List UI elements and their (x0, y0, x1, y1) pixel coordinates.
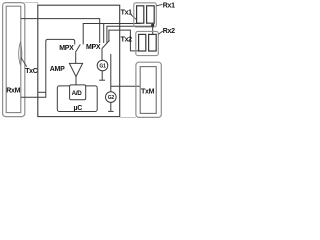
wire TxM net vertical (110, 54, 112, 92)
svg-text:TxC: TxC (25, 68, 38, 75)
leader line Rx1 (156, 4, 162, 5)
wire to TxM electrode (111, 85, 140, 87)
box microcontroller uC (57, 86, 97, 112)
op-amp AMP triangle (69, 63, 82, 76)
chip controller box U1 (38, 5, 120, 116)
wire MPX2 to G1 (101, 49, 103, 61)
electrode TxM inner plate (140, 67, 156, 114)
electrode RxM inner plate (6, 6, 21, 112)
wire Tx2 net (109, 30, 140, 51)
wire faint bottom segment (120, 117, 136, 119)
svg-text:µC: µC (74, 105, 83, 112)
panel group1 container (134, 3, 157, 27)
sensing element TxC lens (19, 43, 22, 65)
wire G1 bottom stem (101, 71, 103, 80)
box MPX1 multiplexer (46, 39, 75, 92)
svg-text:Rx1: Rx1 (163, 3, 175, 10)
wire AMP to A/D (75, 77, 77, 85)
wire MPX2 contact2 stub (103, 24, 105, 44)
svg-text:A/D: A/D (72, 90, 83, 97)
svg-text:Tx1: Tx1 (121, 10, 133, 17)
electrode Tx2 plate (139, 34, 146, 51)
svg-text:G1: G1 (99, 63, 106, 69)
wire RxM bottom to guard box (21, 92, 46, 97)
svg-text:Rx2: Rx2 (163, 28, 175, 35)
generator G1 circle (97, 60, 108, 71)
panel group2 container (136, 31, 159, 55)
leader line TxC (21, 58, 27, 67)
svg-text:G2: G2 (108, 95, 115, 101)
wire Rx common net (107, 26, 153, 43)
wire chip edge tie (38, 91, 46, 93)
leader line Tx1 (130, 14, 137, 20)
electrode Rx1 plate (147, 6, 155, 23)
junction dot Rx (151, 24, 154, 27)
panel TxM outer shield box (136, 62, 161, 117)
electrode Rx2 plate (149, 34, 157, 51)
wire RxM to MPX2 contact1 (21, 19, 100, 43)
switch MPX1 blade (76, 44, 81, 52)
terminal G1 bar (99, 79, 105, 81)
wire MPX1 to AMP (75, 52, 77, 63)
svg-text:MPX: MPX (86, 44, 101, 51)
svg-text:MPX: MPX (59, 45, 74, 52)
wire Rx1 to Rx2 (152, 23, 154, 34)
terminal G2 bar (108, 110, 114, 112)
leader line Rx2 (158, 31, 163, 34)
wire gray jumper top-left (25, 3, 38, 6)
box A/D converter (70, 85, 86, 100)
switch MPX2 blade (102, 40, 110, 48)
wire G2 bottom stem (110, 102, 112, 111)
svg-text:TxM: TxM (141, 89, 155, 96)
panel RxM outer shield box (3, 3, 25, 117)
svg-text:AMP: AMP (50, 66, 65, 73)
svg-text:RxM: RxM (6, 88, 20, 95)
svg-text:Tx2: Tx2 (121, 36, 133, 43)
wire Tx1 net (83, 24, 140, 45)
generator G2 circle (106, 92, 117, 103)
electrode Tx1 plate (137, 6, 144, 23)
